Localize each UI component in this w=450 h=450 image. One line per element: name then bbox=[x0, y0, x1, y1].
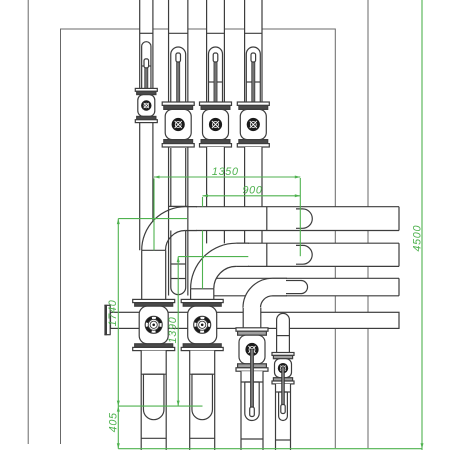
extension line x300.3 bbox=[299, 178, 301, 256]
valve B bbox=[181, 299, 223, 302]
pipe A weld joint bbox=[266, 207, 268, 231]
dim line 4500 bbox=[421, 0, 423, 450]
pipe P2 upper bbox=[169, 0, 188, 102]
elbow E2 bbox=[191, 243, 248, 289]
pipe under valve D bbox=[276, 384, 291, 450]
pipe B end-cap tube bbox=[296, 245, 312, 264]
pipe C end-cap tube bbox=[265, 281, 308, 294]
elbow E1 end joint bbox=[184, 207, 186, 231]
pipe A run bbox=[185, 207, 399, 231]
elbow E2 end joint bbox=[235, 243, 237, 266]
riser C lower tube bbox=[241, 371, 263, 450]
svg-text:4500: 4500 bbox=[411, 225, 423, 252]
valve A bbox=[133, 299, 175, 302]
valve C stem bbox=[250, 350, 253, 407]
valve D bbox=[272, 353, 294, 356]
pipe P3 upper bbox=[207, 0, 225, 102]
svg-text:1390: 1390 bbox=[167, 317, 179, 344]
pipe C cap arc bbox=[301, 281, 308, 294]
pipe D run bbox=[111, 312, 400, 328]
elbow E3 bbox=[243, 278, 286, 308]
dim line 1390 bbox=[177, 257, 179, 407]
svg-text:1740: 1740 bbox=[107, 300, 119, 327]
valve V4 bbox=[237, 102, 269, 105]
valve V3 bbox=[200, 102, 232, 105]
valve D top tube bbox=[277, 313, 290, 352]
valve D stem bbox=[282, 367, 285, 405]
extension line y256.6 bbox=[178, 256, 248, 258]
pipe B run bbox=[236, 243, 399, 266]
wall line right bbox=[367, 0, 369, 448]
dim line 1350 bbox=[154, 176, 300, 178]
pipe P2 lower fill bbox=[169, 147, 188, 296]
riser to valve C bbox=[243, 307, 261, 328]
svg-text:1350: 1350 bbox=[212, 166, 239, 178]
wall rectangle bbox=[61, 29, 336, 448]
valve V2 bbox=[162, 102, 194, 105]
elbow E3 end joint bbox=[275, 278, 277, 296]
pipe P2 lower capped tube bbox=[168, 147, 170, 296]
wall line left bbox=[27, 0, 29, 444]
extension line x202.5 upper bbox=[202, 197, 204, 207]
extension line y218.6 bbox=[118, 218, 187, 220]
pipe P3 lower bbox=[207, 147, 225, 243]
riser 2 neck bbox=[190, 289, 192, 300]
pipe C run bbox=[205, 278, 399, 296]
valve V1 bbox=[135, 88, 157, 91]
pipe A end-cap tube bbox=[296, 209, 312, 228]
riser 1 neck bbox=[141, 250, 143, 299]
pipe D blind flange bbox=[104, 305, 107, 335]
svg-text:900: 900 bbox=[242, 185, 262, 197]
extension line y406.1 bbox=[118, 405, 202, 407]
dim line 1740 bbox=[117, 219, 119, 407]
pipe P4 lower bbox=[245, 147, 262, 243]
pipe P1 lower bbox=[140, 122, 153, 250]
extension line y447.6 bottom bbox=[118, 448, 422, 450]
pipe P1 upper bbox=[140, 0, 153, 88]
pipe B weld joint bbox=[266, 243, 268, 266]
dim line 405 bbox=[117, 406, 119, 449]
dim line 900 bbox=[203, 195, 301, 197]
extension line x202.5 lower bbox=[202, 231, 204, 289]
valve C bbox=[236, 328, 268, 331]
extension line x154 bbox=[153, 179, 155, 251]
riser 2 lower tube bbox=[190, 351, 215, 450]
svg-text:405: 405 bbox=[107, 412, 119, 432]
riser 1 lower tube bbox=[141, 351, 166, 450]
pipe P4 upper bbox=[245, 0, 262, 102]
elbow E1 bbox=[142, 207, 196, 251]
